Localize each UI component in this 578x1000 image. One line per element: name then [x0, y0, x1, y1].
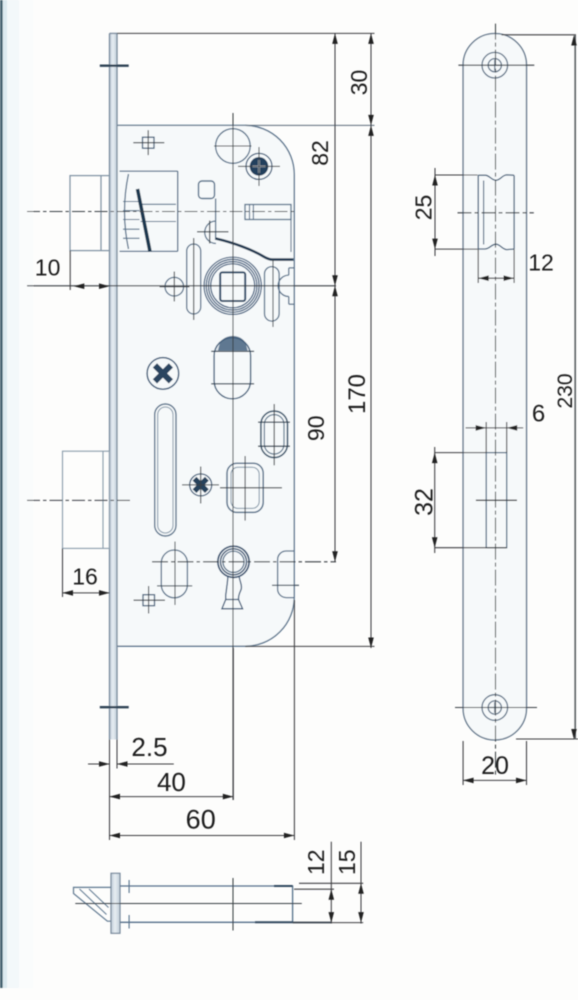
svg-text:12: 12 [303, 849, 329, 875]
svg-text:15: 15 [334, 849, 360, 875]
svg-text:30: 30 [346, 70, 372, 96]
svg-text:20: 20 [481, 752, 509, 780]
svg-text:230: 230 [554, 373, 577, 408]
svg-text:2.5: 2.5 [131, 732, 167, 762]
svg-text:82: 82 [307, 140, 333, 166]
svg-text:25: 25 [411, 195, 437, 221]
svg-text:60: 60 [186, 804, 216, 834]
svg-text:12: 12 [528, 249, 554, 275]
svg-text:90: 90 [303, 416, 329, 442]
svg-text:32: 32 [411, 488, 439, 516]
svg-text:40: 40 [157, 767, 186, 797]
svg-text:16: 16 [72, 564, 98, 590]
svg-text:170: 170 [344, 374, 371, 414]
svg-text:6: 6 [532, 401, 545, 428]
svg-text:10: 10 [35, 255, 61, 281]
